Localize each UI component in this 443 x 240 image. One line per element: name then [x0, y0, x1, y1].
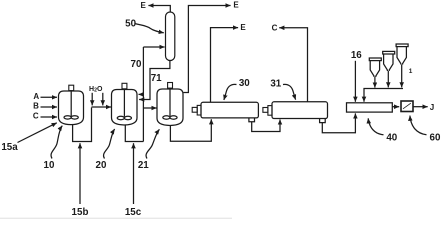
H2O feed	[89, 86, 103, 106]
output J	[413, 103, 434, 112]
inlet C	[33, 112, 57, 121]
vapor line E from vessel 21	[183, 0, 239, 92]
hopper 17c	[396, 44, 408, 87]
reactor vessel 21	[157, 83, 183, 126]
label 20	[96, 129, 115, 171]
svg-text:B: B	[33, 102, 39, 111]
label 60	[410, 116, 441, 144]
label 10	[44, 126, 63, 172]
kneader 30	[192, 102, 258, 122]
svg-text:C: C	[272, 24, 278, 33]
transfer line to vessel 20	[92, 106, 112, 108]
svg-text:40: 40	[386, 133, 397, 144]
vent E from kneader 30	[211, 23, 247, 102]
stream 15b	[72, 143, 89, 218]
svg-text:15b: 15b	[72, 207, 89, 218]
svg-text:H2O: H2O	[89, 86, 103, 94]
feed 16	[351, 50, 362, 102]
label 31	[270, 79, 295, 100]
svg-text:15a: 15a	[1, 142, 18, 153]
svg-text:70: 70	[131, 59, 142, 70]
svg-text:20: 20	[96, 160, 107, 171]
svg-text:71: 71	[151, 73, 162, 84]
line 70	[131, 47, 165, 70]
inlet A	[33, 92, 57, 101]
label 30	[224, 78, 250, 100]
transfer from 31 to extruder 40	[322, 113, 355, 132]
bottom loop of vessel 20 and riser to line 70	[125, 47, 143, 142]
svg-text:16: 16	[351, 50, 362, 61]
hopper 17b	[383, 51, 395, 87]
extruder 40	[347, 103, 393, 112]
svg-text:1: 1	[409, 68, 413, 75]
svg-text:J: J	[430, 103, 434, 112]
inlet B	[33, 102, 57, 111]
vent E from column 50	[141, 1, 171, 12]
svg-text:15c: 15c	[125, 207, 142, 218]
pelletizer 60	[392, 101, 413, 112]
stream 15c	[125, 143, 142, 218]
kneader 31	[263, 102, 328, 123]
svg-text:A: A	[33, 92, 39, 101]
return arrow into vessel 20	[139, 93, 144, 95]
transfer line to vessel 21	[143, 107, 156, 109]
svg-text:10: 10	[44, 160, 55, 171]
label 21	[138, 129, 160, 171]
label 40	[368, 118, 398, 143]
reactor vessel 20	[112, 83, 138, 125]
vent C from kneader 31	[272, 24, 308, 102]
transfer from 30 to 31	[252, 120, 280, 132]
reactor vessel 10	[59, 85, 84, 124]
svg-text:E: E	[233, 0, 239, 9]
faint bottom edge line	[0, 217, 232, 219]
hopper feed header	[364, 89, 403, 102]
label 15a	[1, 123, 56, 153]
outlet line from vessel 21 to kneader 30	[170, 119, 211, 141]
hopper 17a	[369, 58, 381, 88]
svg-text:60: 60	[430, 133, 441, 144]
svg-text:30: 30	[239, 78, 250, 89]
column 50	[125, 12, 175, 61]
line 71	[139, 60, 170, 99]
svg-text:E: E	[141, 1, 147, 10]
svg-text:31: 31	[270, 79, 281, 90]
svg-text:C: C	[33, 112, 39, 121]
svg-text:21: 21	[138, 160, 149, 171]
svg-text:E: E	[240, 23, 246, 32]
bottom loop of vessel 10	[73, 108, 92, 142]
